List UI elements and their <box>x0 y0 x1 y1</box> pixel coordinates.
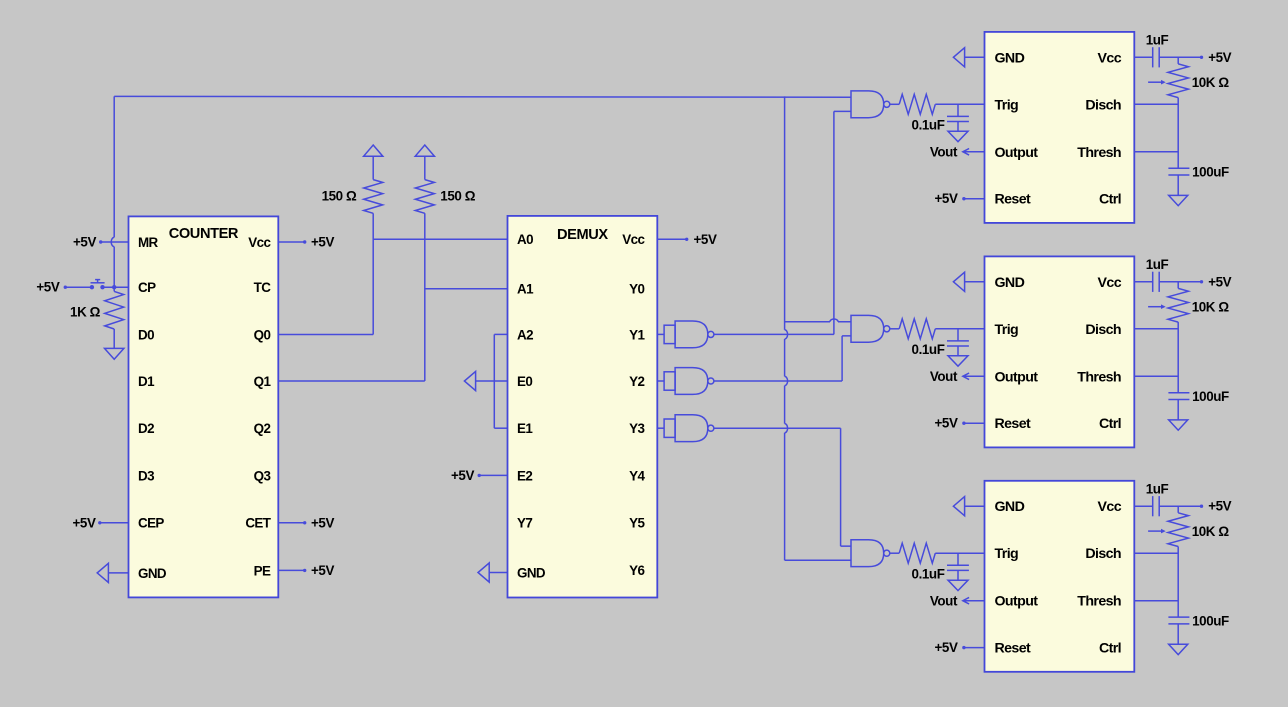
IC U3 555 box and pin labels <box>985 32 1135 223</box>
wire hop over MR wire <box>111 237 114 246</box>
svg-text:GND: GND <box>995 275 1025 291</box>
NAND gate G4 at Y1 <box>657 321 714 348</box>
Vout arrow timer1 <box>963 151 985 153</box>
capacitor C4 0.1uF <box>957 329 959 341</box>
svg-text:+5V: +5V <box>73 515 96 530</box>
wire +5V to push button <box>65 286 92 288</box>
svg-text:+5V: +5V <box>311 563 334 578</box>
node CP junction dot <box>112 285 116 289</box>
svg-text:Y7: Y7 <box>517 516 532 531</box>
wire Disch timer3 <box>1134 552 1178 554</box>
wire A1 line <box>425 288 508 290</box>
resistor R1 1K <box>113 287 115 291</box>
svg-text:0.1uF: 0.1uF <box>912 118 945 133</box>
node +5V CP dot <box>64 286 67 289</box>
svg-text:+5V: +5V <box>1208 50 1231 65</box>
svg-text:+5V: +5V <box>36 280 59 295</box>
Vout arrow timer3 <box>963 600 985 602</box>
node +5V Reset dot timer2 <box>962 422 965 425</box>
node +5V Vcc dot <box>303 240 306 243</box>
node +5V CET dot <box>303 521 306 524</box>
svg-text:COUNTER: COUNTER <box>169 226 239 242</box>
supply arrow above R2 150 <box>364 145 383 156</box>
svg-text:0.1uF: 0.1uF <box>912 567 945 582</box>
ground below C7 <box>948 580 968 590</box>
svg-text:+5V: +5V <box>1208 499 1231 514</box>
ground arrow timer2 GND pin <box>953 272 964 291</box>
wire R2 to A0 and Q0 <box>372 213 374 334</box>
capacitor C6 100uF <box>1168 392 1189 394</box>
svg-text:+5V: +5V <box>1208 274 1231 289</box>
svg-text:E2: E2 <box>517 468 532 483</box>
svg-text:Thresh: Thresh <box>1077 369 1121 385</box>
svg-text:E0: E0 <box>517 374 532 389</box>
wire Y2 gate output to G2 <box>714 380 842 382</box>
svg-text:D0: D0 <box>138 327 154 342</box>
svg-text:Trig: Trig <box>995 322 1019 338</box>
svg-text:Ctrl: Ctrl <box>1099 416 1121 432</box>
svg-text:Y1: Y1 <box>629 327 645 342</box>
svg-text:+5V: +5V <box>311 515 334 530</box>
svg-text:+5V: +5V <box>935 640 958 655</box>
capacitor C1 0.1uF <box>957 104 959 116</box>
wire top clock line <box>114 95 851 98</box>
resistor R5 gate to Trig <box>890 328 899 330</box>
svg-text:Output: Output <box>995 594 1039 610</box>
svg-text:A0: A0 <box>517 232 533 247</box>
resistor R2 150 <box>372 156 374 179</box>
svg-text:Thresh: Thresh <box>1077 145 1121 161</box>
svg-text:Vcc: Vcc <box>1098 499 1122 515</box>
capacitor C5 1uF <box>1134 281 1152 283</box>
node +5V demux Vcc dot <box>685 238 688 241</box>
node +5V CEP dot <box>98 521 101 524</box>
ground below R1 1K <box>105 348 124 359</box>
capacitor C8 1uF <box>1134 505 1152 507</box>
wire clock vertical from top to CP junction <box>113 96 115 237</box>
capacitor C9 100uF <box>1168 616 1189 618</box>
wire hop on vertical <box>785 376 788 385</box>
svg-text:Thresh: Thresh <box>1077 594 1121 610</box>
wire +5V to Reset timer3 <box>964 647 985 649</box>
svg-text:Disch: Disch <box>1085 322 1121 338</box>
resistor R3 150 <box>424 156 426 179</box>
wire Q1 to riser <box>278 380 425 382</box>
svg-text:A1: A1 <box>517 282 534 297</box>
wire counter Vcc to +5V <box>278 241 304 243</box>
capacitor C2 1uF <box>1134 56 1152 58</box>
svg-text:Q1: Q1 <box>254 374 272 389</box>
node +5V MR dot <box>99 240 102 243</box>
svg-text:GND: GND <box>995 50 1025 66</box>
svg-text:GND: GND <box>138 566 167 581</box>
svg-text:Disch: Disch <box>1085 546 1121 562</box>
ground arrow at counter GND <box>97 563 108 582</box>
svg-text:DEMUX: DEMUX <box>557 227 608 243</box>
svg-text:CP: CP <box>138 280 156 295</box>
svg-text:TC: TC <box>254 280 272 295</box>
svg-text:E1: E1 <box>517 421 533 436</box>
NAND gate G2 driver <box>851 315 890 342</box>
wire counter PE to +5V <box>278 569 304 571</box>
wire demux Vcc to +5V <box>657 238 686 240</box>
svg-text:D3: D3 <box>138 468 154 483</box>
IC U5 555 box and pin labels <box>985 481 1135 672</box>
wire Y3 gate output to G3 <box>714 427 841 429</box>
NAND gate G6 at Y3 <box>657 415 714 442</box>
node +5V Reset dot timer3 <box>962 646 965 649</box>
node +5V right dot timer1 <box>1200 56 1203 59</box>
svg-text:Output: Output <box>995 369 1039 385</box>
svg-text:150 Ω: 150 Ω <box>322 188 357 203</box>
capacitor C7 0.1uF <box>957 553 959 565</box>
svg-text:Trig: Trig <box>995 97 1019 113</box>
svg-text:Ctrl: Ctrl <box>1099 641 1121 657</box>
node +5V Reset dot timer1 <box>962 197 965 200</box>
svg-text:Vcc: Vcc <box>1098 50 1122 66</box>
wire +5V to E2 <box>479 474 507 476</box>
ground below C3 <box>1169 195 1188 205</box>
ground below C9 <box>1169 644 1188 654</box>
svg-text:1uF: 1uF <box>1146 482 1169 497</box>
ground below C6 <box>1169 420 1188 430</box>
wire Thresh timer3 <box>1134 600 1178 602</box>
svg-text:Y5: Y5 <box>629 516 645 531</box>
resistor R9 10K <box>1177 506 1179 513</box>
svg-text:Reset: Reset <box>995 192 1032 208</box>
svg-text:Ctrl: Ctrl <box>1099 192 1121 208</box>
wire Q0 to riser <box>278 334 373 336</box>
node +5V right dot timer2 <box>1200 280 1203 283</box>
svg-text:+5V: +5V <box>935 416 958 431</box>
wire Thresh timer1 <box>1134 151 1178 153</box>
svg-text:10K Ω: 10K Ω <box>1192 75 1230 90</box>
capacitor C3 100uF <box>1168 167 1189 169</box>
svg-text:Y2: Y2 <box>629 374 644 389</box>
svg-text:100uF: 100uF <box>1192 165 1229 180</box>
svg-text:Reset: Reset <box>995 416 1032 432</box>
resistor R6 gate to Trig <box>890 552 899 554</box>
svg-text:D2: D2 <box>138 421 154 436</box>
Vout arrow timer2 <box>963 375 985 377</box>
resistor R7 10K <box>1177 57 1179 64</box>
trimmer arrow timer3 <box>1148 530 1161 532</box>
svg-text:Q2: Q2 <box>254 421 271 436</box>
NAND gate G3 driver <box>851 540 890 567</box>
IC U1 COUNTER box and pin labels <box>129 216 279 597</box>
ground arrow timer3 GND pin <box>953 497 964 516</box>
svg-text:Vcc: Vcc <box>622 232 645 247</box>
svg-text:Y3: Y3 <box>629 421 644 436</box>
svg-text:CEP: CEP <box>138 516 164 531</box>
wire long vertical clock branch <box>784 96 786 329</box>
IC U2 DEMUX box and pin labels <box>508 216 658 598</box>
svg-text:+5V: +5V <box>451 468 474 483</box>
svg-text:Y0: Y0 <box>629 282 644 297</box>
wire branch to gate G2 top input <box>785 321 830 323</box>
wire Disch timer1 <box>1134 103 1178 105</box>
resistor R4 gate to Trig <box>890 103 899 105</box>
wire hop on vertical <box>785 424 788 433</box>
wire A2 to E1 tie <box>494 333 507 335</box>
supply arrow above R3 150 <box>415 145 434 156</box>
NAND gate G1 driver <box>851 91 890 118</box>
wire to gate G3 bottom input <box>785 559 851 561</box>
svg-text:100uF: 100uF <box>1192 389 1229 404</box>
svg-text:+5V: +5V <box>73 235 96 250</box>
wire +5V to MR <box>101 241 129 243</box>
svg-text:GND: GND <box>517 565 546 580</box>
svg-text:Q0: Q0 <box>254 327 271 342</box>
svg-text:Vcc: Vcc <box>248 235 271 250</box>
wire +5V to Reset timer2 <box>964 422 985 424</box>
svg-text:PE: PE <box>254 563 271 578</box>
svg-text:Output: Output <box>995 145 1039 161</box>
svg-text:+5V: +5V <box>311 235 334 250</box>
svg-text:10K Ω: 10K Ω <box>1192 524 1230 539</box>
wire counter CET to +5V <box>278 522 304 524</box>
trimmer arrow timer1 <box>1148 81 1161 83</box>
svg-text:Reset: Reset <box>995 641 1032 657</box>
ground below C1 <box>948 131 968 141</box>
svg-text:+5V: +5V <box>694 232 717 247</box>
wire Thresh timer2 <box>1134 375 1178 377</box>
svg-text:Vout: Vout <box>930 369 958 384</box>
ground arrow at E0 <box>464 371 475 390</box>
wire +5V to CEP <box>100 522 129 524</box>
svg-text:Vcc: Vcc <box>1098 275 1122 291</box>
svg-text:150 Ω: 150 Ω <box>440 188 475 203</box>
svg-text:Vout: Vout <box>930 593 958 608</box>
svg-text:CET: CET <box>245 516 271 531</box>
svg-text:0.1uF: 0.1uF <box>912 342 945 357</box>
svg-text:Y4: Y4 <box>629 468 645 483</box>
svg-text:10K Ω: 10K Ω <box>1192 300 1230 315</box>
wire hop on vertical <box>785 330 788 339</box>
wire A0 line <box>373 238 507 240</box>
svg-text:1K Ω: 1K Ω <box>70 305 101 320</box>
node +5V E2 dot <box>478 474 481 477</box>
wire R3 to A1 and Q1 <box>424 213 426 381</box>
svg-text:Vout: Vout <box>930 145 958 160</box>
wire Y1 gate output to G1 <box>714 333 834 335</box>
svg-text:A2: A2 <box>517 327 533 342</box>
NAND gate G5 at Y2 <box>657 368 714 395</box>
node +5V PE dot <box>303 569 306 572</box>
resistor R8 10K <box>1177 282 1179 289</box>
ground below C4 <box>948 356 968 366</box>
svg-text:Q3: Q3 <box>254 468 271 483</box>
IC U4 555 box and pin labels <box>985 256 1135 447</box>
wire button to CP pin <box>103 286 129 288</box>
svg-text:Trig: Trig <box>995 546 1019 562</box>
svg-text:MR: MR <box>138 235 159 250</box>
wire Disch timer2 <box>1134 328 1178 330</box>
wire +5V to Reset timer1 <box>964 198 985 200</box>
svg-text:1uF: 1uF <box>1146 257 1169 272</box>
svg-text:GND: GND <box>995 499 1025 515</box>
svg-text:100uF: 100uF <box>1192 614 1229 629</box>
node +5V right dot timer3 <box>1200 505 1203 508</box>
svg-text:Y6: Y6 <box>629 563 644 578</box>
ground arrow at demux GND <box>478 563 489 582</box>
svg-text:+5V: +5V <box>935 191 958 206</box>
svg-text:D1: D1 <box>138 374 155 389</box>
svg-text:Disch: Disch <box>1085 97 1121 113</box>
svg-text:1uF: 1uF <box>1146 33 1169 48</box>
trimmer arrow timer2 <box>1148 306 1161 308</box>
push button SW1 <box>90 285 94 289</box>
ground arrow timer1 GND pin <box>953 48 964 67</box>
